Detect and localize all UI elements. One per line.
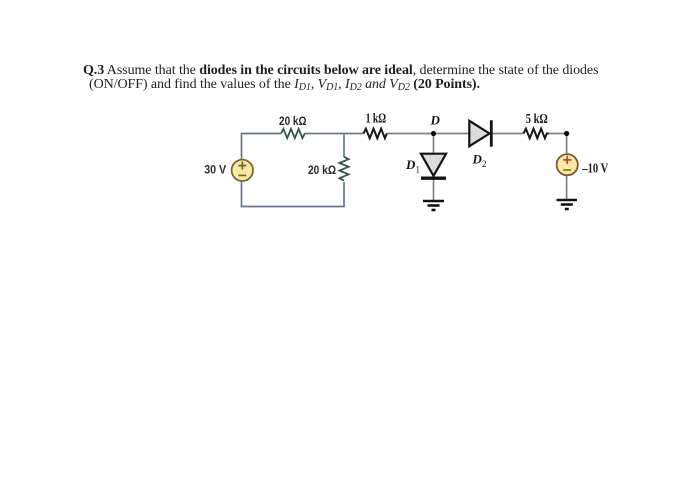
svg-text:5 kΩ: 5 kΩ bbox=[526, 111, 548, 126]
diode D1 (vertical, pointing down) bbox=[421, 154, 446, 179]
svg-text:1 kΩ: 1 kΩ bbox=[366, 110, 387, 125]
wire left vertical upper bbox=[241, 133, 243, 160]
wire right node down to -10V source bbox=[566, 134, 568, 155]
resistor 1 kOhm bbox=[364, 129, 387, 139]
wire right-loop vertical lower bbox=[343, 182, 345, 207]
diode D2 (horizontal, pointing right) bbox=[469, 120, 491, 146]
svg-text:20 kΩ: 20 kΩ bbox=[308, 163, 336, 177]
resistor 5 kOhm bbox=[524, 129, 549, 139]
resistor 20 kOhm horizontal bbox=[281, 129, 305, 138]
wire right-loop vertical upper bbox=[343, 133, 345, 157]
svg-text:D: D bbox=[430, 113, 441, 128]
wire D1 cathode to ground bbox=[433, 178, 435, 201]
wire D2 cathode to 5k bbox=[491, 133, 524, 135]
wire 1k to node D bbox=[387, 133, 470, 135]
wire bottom horizontal bbox=[241, 206, 345, 208]
wire 5k to right node bbox=[549, 133, 567, 135]
ground (under D1) bbox=[423, 201, 444, 210]
voltage source 30 V bbox=[232, 160, 253, 181]
right node junction dot bbox=[564, 131, 569, 136]
wire -10V source to ground bbox=[566, 175, 568, 199]
question text line 1 bbox=[83, 63, 598, 79]
svg-text:D: D bbox=[405, 157, 416, 172]
wire top middle (after 20k to 1k) bbox=[305, 133, 364, 135]
svg-text:30 V: 30 V bbox=[204, 164, 226, 177]
svg-text:–10 V: –10 V bbox=[582, 160, 609, 175]
wire top-left horizontal bbox=[242, 133, 282, 135]
svg-text:2: 2 bbox=[482, 159, 487, 169]
question text line 2 bbox=[89, 77, 480, 93]
svg-text:20 kΩ: 20 kΩ bbox=[279, 114, 307, 128]
node D junction dot bbox=[431, 131, 436, 136]
svg-text:1: 1 bbox=[416, 165, 421, 175]
wire node D down to D1 bbox=[433, 134, 435, 155]
voltage source -10 V bbox=[557, 154, 578, 175]
resistor 20 kOhm vertical bbox=[339, 157, 348, 181]
ground (under -10V source) bbox=[557, 200, 578, 209]
wire left vertical lower bbox=[241, 181, 243, 207]
svg-text:D: D bbox=[472, 152, 483, 167]
